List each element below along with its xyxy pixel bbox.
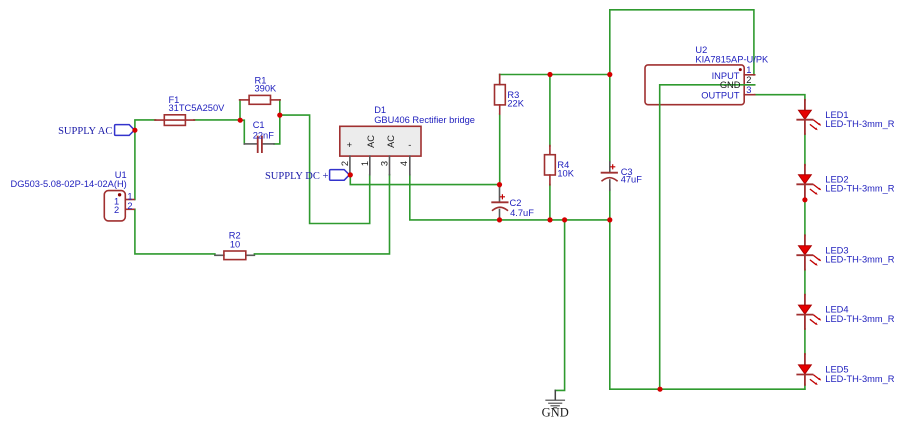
svg-text:KIA7815AP-U/PK: KIA7815AP-U/PK — [695, 54, 769, 64]
wire R3 bottom to DC+ node — [499, 114, 501, 187]
U1 pin1 marker dot — [118, 193, 121, 196]
junction at R1/C1 left node — [238, 118, 243, 123]
svg-text:2: 2 — [114, 205, 119, 215]
net flag SUPPLY DC + — [330, 170, 350, 181]
wire: D1 pin4 down to ground rail — [410, 175, 610, 220]
junction at C3 top on top rail — [607, 72, 612, 77]
junction below LED2 — [802, 197, 807, 202]
wire top run to U2 INPUT — [610, 10, 754, 75]
svg-text:3: 3 — [380, 161, 390, 166]
svg-text:LED-TH-3mm_R: LED-TH-3mm_R — [825, 374, 894, 384]
LED3 — [797, 235, 821, 269]
svg-text:1: 1 — [127, 191, 132, 201]
wire: SUPPLY AC node down to U1 pin1 — [134, 130, 136, 199]
wire: GND tap — [555, 220, 564, 391]
wire R3 top to rail — [499, 75, 501, 85]
resistor R1 — [240, 95, 281, 104]
resistor R4 — [545, 146, 556, 185]
svg-text:AC: AC — [386, 135, 396, 148]
svg-text:AC: AC — [366, 135, 376, 148]
wire: top rail — [500, 74, 610, 76]
wire: SUPPLY AC node up to F1 — [135, 120, 156, 130]
ground — [546, 390, 565, 407]
wire: R1 left vertical — [239, 100, 241, 120]
wire: F1 right to R1C1 left node — [194, 119, 240, 121]
svg-text:2: 2 — [340, 161, 350, 166]
junction at R4 top on top rail — [547, 72, 552, 77]
svg-text:SUPPLY DC +: SUPPLY DC + — [265, 171, 328, 182]
svg-text:10: 10 — [230, 240, 240, 250]
svg-text:47uF: 47uF — [621, 175, 643, 185]
svg-text:22nF: 22nF — [253, 131, 275, 141]
svg-text:1: 1 — [746, 65, 751, 75]
svg-text:390K: 390K — [255, 83, 278, 93]
svg-text:GND: GND — [542, 406, 569, 420]
wire LED3 to LED4 — [804, 270, 806, 295]
svg-text:2: 2 — [127, 201, 132, 211]
wire C3 bottom to ground rail — [609, 190, 611, 220]
wire top node up — [609, 10, 611, 75]
svg-text:3: 3 — [746, 85, 751, 95]
LED4 — [797, 295, 821, 329]
junction at D1 pin2 / SUPPLY DC + — [348, 172, 353, 177]
capacitor C3 — [602, 162, 617, 190]
svg-text:-: - — [408, 140, 411, 150]
resistor R3 — [495, 75, 506, 115]
svg-text:1: 1 — [360, 161, 370, 166]
rectifier bridge D1 — [340, 126, 421, 174]
LED2 — [797, 165, 821, 199]
svg-text:+: + — [347, 140, 352, 150]
wire: U2 gnd pin left and down to bottom rail — [660, 85, 755, 389]
wire: C1 left jog — [240, 120, 244, 144]
U2 pin1 marker dot — [739, 68, 742, 71]
svg-text:C1: C1 — [253, 120, 265, 130]
svg-text:4.7uF: 4.7uF — [510, 208, 534, 218]
wire R4 top to rail — [549, 75, 551, 147]
junction at R4 bottom on ground rail — [547, 217, 552, 222]
wire: U2 output to LED1 — [755, 95, 805, 100]
capacitor C2 — [492, 187, 507, 220]
svg-text:OUTPUT: OUTPUT — [701, 90, 740, 100]
junction at U2 GND on bottom rail — [657, 387, 662, 392]
wire R4 bottom to ground rail — [549, 185, 551, 220]
wire LED1 to LED2 — [804, 134, 806, 165]
regulator U2 — [645, 65, 755, 105]
junction at R1/C1 right node — [277, 113, 282, 118]
wire: D1 pin2 to DC+ node across to C2 — [350, 175, 499, 185]
LED5 — [797, 354, 821, 385]
svg-text:LED-TH-3mm_R: LED-TH-3mm_R — [825, 255, 894, 265]
capacitor C1 — [244, 137, 274, 153]
svg-text:LED-TH-3mm_R: LED-TH-3mm_R — [825, 184, 894, 194]
wire: U1 pin2 down and right through R2 to D1 pin3 — [134, 209, 215, 254]
wire: C1 right vertical up to node — [274, 115, 280, 144]
svg-text:10K: 10K — [557, 168, 574, 178]
wire: R1C1 right node to D1 pin1 — [280, 115, 370, 223]
svg-text:2: 2 — [746, 75, 751, 85]
svg-text:22K: 22K — [507, 98, 524, 108]
junction at SUPPLY AC node — [132, 128, 137, 133]
wire LED2 to LED3 — [804, 199, 806, 236]
junction at C2 bottom on ground rail — [497, 217, 502, 222]
resistor R2 — [215, 251, 255, 260]
svg-text:C2: C2 — [510, 198, 522, 208]
svg-text:LED-TH-3mm_R: LED-TH-3mm_R — [825, 314, 894, 324]
LED1 — [797, 100, 821, 134]
connector U1 — [104, 191, 134, 221]
svg-text:LED-TH-3mm_R: LED-TH-3mm_R — [825, 119, 894, 129]
fuse F1 — [155, 115, 194, 126]
svg-text:SUPPLY AC: SUPPLY AC — [58, 126, 112, 137]
svg-text:GND: GND — [720, 80, 741, 90]
svg-text:GBU406 Rectifier bridge: GBU406 Rectifier bridge — [374, 115, 475, 125]
junction at GND tap on ground rail — [562, 217, 567, 222]
junction at C3 bottom on ground rail — [607, 217, 612, 222]
wire LED5 to bottom rail — [804, 385, 806, 390]
junction at C2 top / R3 bottom — [497, 182, 502, 187]
wire C3 top to rail — [609, 75, 611, 163]
svg-text:DG503-5.08-02P-14-02A(H): DG503-5.08-02P-14-02A(H) — [11, 179, 127, 189]
svg-text:31TC5A250V: 31TC5A250V — [169, 103, 226, 113]
net flag SUPPLY AC — [115, 125, 135, 136]
svg-text:D1: D1 — [374, 105, 386, 115]
svg-text:4: 4 — [399, 161, 409, 166]
wire: ground rail down and bottom run to LED5 — [610, 220, 805, 389]
wire: R1 right vertical down to node — [279, 100, 281, 115]
wire LED4 to LED5 — [804, 329, 806, 354]
